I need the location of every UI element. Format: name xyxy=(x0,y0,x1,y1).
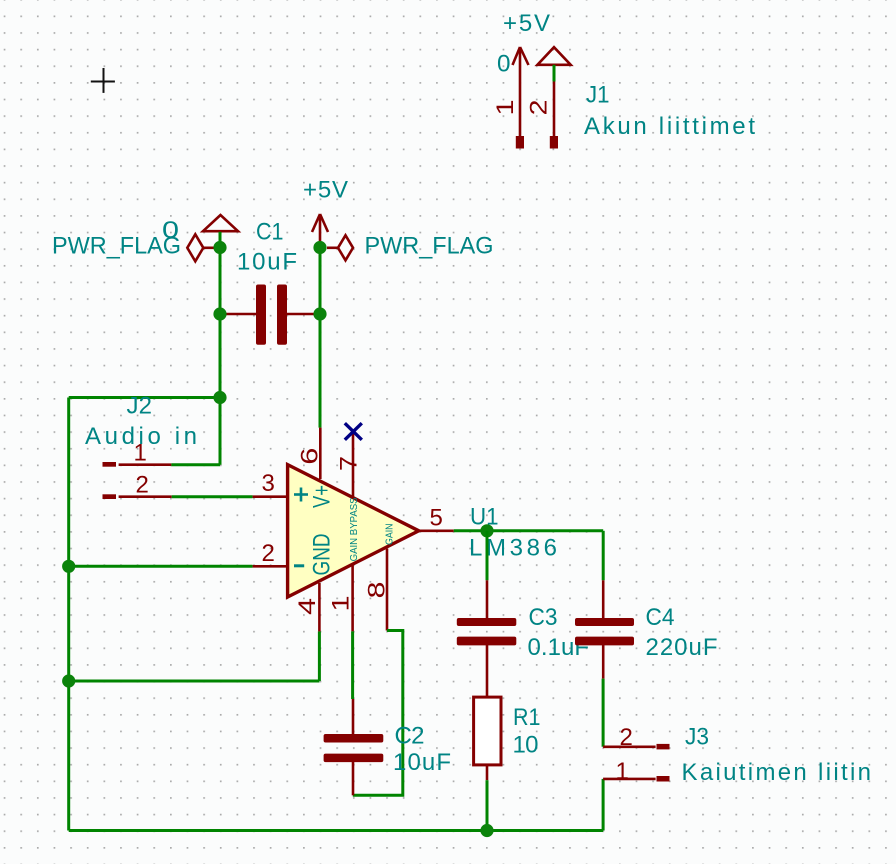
svg-text:LM386: LM386 xyxy=(469,535,557,562)
J3 pin 2 xyxy=(603,745,656,748)
junction (220,397.5) xyxy=(213,391,226,404)
connector J1 xyxy=(492,82,755,149)
junction (487,530.8) xyxy=(480,524,493,537)
svg-text:+5V: +5V xyxy=(503,10,550,37)
PWR_FLAG right xyxy=(327,233,494,261)
svg-text:10uF: 10uF xyxy=(393,749,451,776)
svg-text:C2: C2 xyxy=(395,723,425,750)
svg-text:0: 0 xyxy=(497,51,511,78)
svg-text:2: 2 xyxy=(526,100,553,116)
svg-text:J3: J3 xyxy=(685,724,709,751)
svg-text:2: 2 xyxy=(262,540,275,567)
svg-text:C4: C4 xyxy=(646,604,675,631)
power symbol triangle (at J1 pin 2) xyxy=(537,47,570,81)
power symbol +5V (right of C1) xyxy=(303,177,348,243)
junction (220,247.5) xyxy=(213,241,226,254)
svg-text:J1: J1 xyxy=(586,82,610,109)
svg-text:3: 3 xyxy=(262,470,275,497)
U1 + input mark xyxy=(294,488,308,502)
op-amp U1 LM386 xyxy=(253,428,557,632)
junction (320,314) xyxy=(313,307,326,320)
U1 pin 3 stub xyxy=(253,495,288,498)
wire inverting input xyxy=(69,565,253,568)
wire output down to C3 xyxy=(486,531,489,581)
svg-text:10: 10 xyxy=(513,732,539,759)
resistor R1 xyxy=(474,697,541,780)
cursor crosshair xyxy=(91,68,115,93)
svg-text:C1: C1 xyxy=(256,219,284,246)
J3 pin 1 xyxy=(603,778,656,781)
connector J3 xyxy=(603,724,871,787)
junction (68.7,681) xyxy=(62,674,75,687)
no-connect X on pin 7 xyxy=(345,423,362,440)
capacitor C3 xyxy=(457,580,589,697)
svg-text:PWR_FLAG: PWR_FLAG xyxy=(365,233,494,260)
power symbol triangle (left of C1) xyxy=(203,215,238,242)
wire output down to C4 xyxy=(602,531,605,581)
svg-text:V+: V+ xyxy=(309,485,336,508)
junction (487,830.5) xyxy=(480,824,493,837)
svg-text:220uF: 220uF xyxy=(646,634,718,661)
wire J2 pin2 to U1 pin3 xyxy=(172,495,253,498)
wire U1 pin8 jog xyxy=(353,631,403,796)
svg-text:1: 1 xyxy=(616,758,629,785)
junction (220,314) xyxy=(213,307,226,320)
svg-text:2: 2 xyxy=(136,472,149,499)
svg-text:GAIN: GAIN xyxy=(385,524,396,546)
svg-text:10uF: 10uF xyxy=(237,249,297,276)
svg-text:0: 0 xyxy=(162,217,179,244)
wire down to J2 pin1 xyxy=(219,398,222,465)
svg-text:1: 1 xyxy=(492,100,519,116)
wire J2 pin1 to corner xyxy=(171,463,220,466)
svg-text:GND: GND xyxy=(309,534,336,576)
svg-text:R1: R1 xyxy=(513,704,541,731)
svg-text:1: 1 xyxy=(328,596,355,612)
wire stub J1 pin2 xyxy=(553,65,556,82)
PWR_FLAG left xyxy=(52,217,214,261)
junction (68.7,566.3) xyxy=(62,560,75,573)
U1 pin 7 stub xyxy=(352,433,355,498)
wire up to U1 pin4 xyxy=(318,631,321,681)
wire R1 to ground rail xyxy=(486,780,489,830)
U1 pin 5 stub xyxy=(419,529,454,532)
U1 pin 2 stub xyxy=(253,565,288,568)
U1 - input mark xyxy=(294,564,304,567)
svg-text:4: 4 xyxy=(294,598,321,615)
svg-text:J2: J2 xyxy=(127,393,153,420)
wire bottom ground rail xyxy=(69,829,603,832)
wire left rail vertical xyxy=(67,398,70,831)
wire C4 to J3 pin2 xyxy=(602,679,605,747)
junction (320,247.5) xyxy=(313,241,326,254)
wire U1 pin1 to C2 xyxy=(351,631,354,699)
U1 pin 4 stub xyxy=(318,583,321,631)
svg-text:2: 2 xyxy=(620,724,633,751)
svg-text:8: 8 xyxy=(364,582,391,599)
wire U1 output node xyxy=(454,529,604,532)
svg-text:+5V: +5V xyxy=(303,177,348,204)
svg-text:GAIN BYPASS: GAIN BYPASS xyxy=(349,497,360,561)
capacitor C2 xyxy=(324,699,451,795)
J1 pin 1 pad xyxy=(516,136,524,149)
J1 pin 2 xyxy=(553,82,556,137)
wire junction to left rail xyxy=(69,396,220,399)
svg-text:C3: C3 xyxy=(529,604,558,631)
U1 pin 8 stub xyxy=(386,549,389,631)
svg-text:6: 6 xyxy=(297,448,324,465)
capacitor C1 xyxy=(220,219,320,345)
svg-text:7: 7 xyxy=(336,456,363,471)
U1 pin 6 stub xyxy=(319,428,322,479)
wire ground row xyxy=(69,680,320,683)
connector J2 xyxy=(85,393,197,500)
wire C1 left vertical xyxy=(219,248,222,398)
wire C1 right vertical to U1 pin6 xyxy=(319,248,322,428)
capacitor C4 xyxy=(575,580,718,678)
J2 pin 1 xyxy=(103,462,117,467)
wire ground rail up to J3 pin1 xyxy=(602,779,605,831)
power symbol +5V (at J1 pin 1) xyxy=(513,47,529,136)
U1 pin 1 stub xyxy=(351,566,354,632)
svg-text:5: 5 xyxy=(430,505,443,532)
J2 pin 2 xyxy=(103,494,117,499)
